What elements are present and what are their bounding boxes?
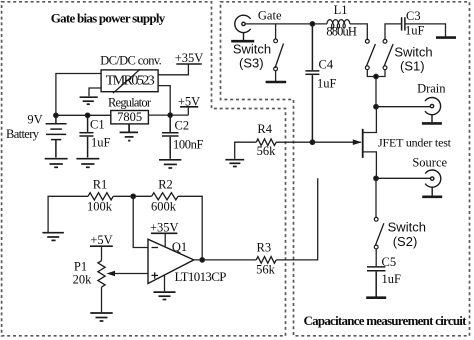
switch S3 contacts — [274, 39, 278, 43]
resistor R3 56k — [256, 257, 276, 264]
wire: R1 left lead to ground — [48, 196, 88, 232]
svg-text:56k: 56k — [256, 263, 276, 277]
svg-text:Gate bias power supply: Gate bias power supply — [51, 11, 166, 26]
svg-text:LT1013CP: LT1013CP — [175, 269, 227, 284]
svg-text:L1: L1 — [334, 3, 348, 17]
wire: op-amp output — [194, 259, 256, 261]
wire: P1 bottom to ground — [101, 287, 103, 312]
svg-text:R1: R1 — [93, 178, 108, 192]
ground: Drain BNC — [422, 122, 442, 125]
svg-text:+5V: +5V — [90, 233, 112, 247]
DC/DC converter U2 TMR0523 box — [101, 70, 158, 92]
node: battery top junction — [54, 113, 58, 117]
wire: gate line from BNC to L1 — [245, 23, 327, 25]
ground: C2 — [159, 160, 181, 168]
svg-text:P1: P1 — [74, 260, 87, 274]
svg-text:+35V: +35V — [175, 51, 204, 65]
svg-text:TMR0523: TMR0523 — [106, 73, 155, 88]
wire: R2 right to feedback corner — [178, 196, 202, 260]
node: inverting input junction — [131, 194, 135, 198]
rail +5V (regulator) — [180, 106, 198, 108]
ground: R4 — [225, 160, 244, 167]
resistor R1 100k — [88, 193, 113, 200]
regulator U3 7805 box — [111, 111, 149, 124]
wire: 7805 output +5V bus — [148, 107, 188, 115]
wire: C3 right to ground — [405, 24, 446, 37]
ground: C3 — [436, 36, 456, 39]
switch S2 contacts — [374, 217, 378, 221]
JFET channel bar — [362, 129, 364, 158]
resistor R2 600k — [152, 193, 178, 200]
wire: R4 right to gate node — [276, 141, 312, 143]
svg-text:JFET under test: JFET under test — [378, 135, 452, 149]
wire: S3 tap — [275, 24, 277, 39]
node: C2 tap junction — [168, 113, 172, 117]
wire: battery bus to 7805 input — [56, 114, 111, 116]
svg-text:9V: 9V — [27, 113, 42, 127]
capacitor C5 — [367, 267, 385, 297]
svg-text:Q1: Q1 — [172, 240, 187, 254]
wire: C3 to S1 right pole — [385, 24, 402, 40]
svg-text:1uF: 1uF — [382, 272, 402, 286]
ground: S3 — [266, 81, 287, 84]
JFET source lead — [363, 152, 377, 178]
wire: S1 common bar — [367, 70, 385, 107]
wire: L1 to S1 left pole — [350, 24, 368, 40]
ground: P1 — [90, 313, 112, 321]
capacitor C3 — [402, 17, 405, 30]
wire: TMR0523 ground pin — [89, 88, 101, 96]
wire: +5V to P1 top — [101, 246, 103, 261]
svg-text:600k: 600k — [151, 199, 177, 213]
node: C1 tap junction — [85, 113, 89, 117]
svg-text:+5V: +5V — [178, 94, 200, 108]
svg-text:20k: 20k — [73, 273, 93, 287]
node: S1 common junction — [374, 74, 378, 78]
svg-text:56k: 56k — [257, 144, 277, 158]
svg-text:C5: C5 — [382, 255, 397, 269]
wire: battery to TMR0523 input — [56, 74, 101, 116]
BNC connector: Gate — [235, 15, 251, 40]
ground: 7805 — [120, 124, 138, 141]
op-amp plus sign — [152, 272, 159, 278]
svg-text:DC/DC conv.: DC/DC conv. — [100, 53, 162, 67]
wire: S3 bottom to ground — [275, 71, 277, 81]
switch S1 right arm — [384, 44, 393, 66]
ground: TMR0523 — [80, 97, 98, 104]
svg-text:+35V: +35V — [150, 221, 179, 235]
resistor R4 56k — [256, 139, 276, 146]
ground: op-amp — [154, 292, 176, 299]
svg-text:Gate: Gate — [258, 9, 282, 23]
switch S1 left pole contacts — [365, 39, 369, 43]
wire: op-amp ground stub — [164, 276, 166, 292]
rail +35V (op-amp) — [151, 232, 177, 234]
svg-text:(S3): (S3) — [239, 56, 264, 71]
svg-text:C3: C3 — [406, 9, 421, 23]
svg-text:C2: C2 — [175, 119, 190, 133]
wire: R4 left lead to ground — [235, 142, 257, 159]
node: drain junction — [374, 105, 378, 109]
svg-text:880uH: 880uH — [326, 25, 357, 39]
svg-text:1uF: 1uF — [317, 77, 337, 91]
svg-text:100nF: 100nF — [173, 138, 204, 152]
BNC connector: Drain — [425, 98, 441, 123]
ground: battery — [45, 159, 68, 168]
svg-text:R4: R4 — [257, 122, 272, 136]
svg-text:Battery: Battery — [6, 127, 40, 141]
svg-text:Source: Source — [412, 156, 447, 170]
svg-text:C4: C4 — [319, 58, 334, 72]
node: source junction — [374, 176, 378, 180]
node: output junction — [200, 258, 204, 262]
rail +5V (P1) — [90, 245, 113, 247]
svg-text:1uF: 1uF — [91, 136, 111, 150]
wire: TMR0523 lower pin down to +5V bus — [158, 86, 170, 116]
potentiometer P1 20k — [98, 261, 105, 287]
BNC connector: Source — [425, 170, 441, 196]
wire: R1 to R2 junction — [113, 195, 151, 197]
wire: TMR0523 output to +35V — [158, 64, 188, 75]
capacitor C4 — [305, 24, 319, 142]
svg-text:Drain: Drain — [417, 82, 446, 96]
capacitor C1 — [79, 115, 93, 157]
ground: Source BNC — [422, 196, 442, 199]
svg-text:R2: R2 — [158, 178, 173, 192]
inductor L1 880uH — [327, 20, 350, 29]
strike line across TMR0523 — [113, 69, 140, 93]
wire: +35V to op-amp top — [164, 233, 166, 247]
rail +35V (power supply) — [176, 63, 202, 65]
svg-text:Regulator: Regulator — [108, 96, 152, 110]
switch S2 arm — [376, 223, 384, 245]
wire: source node down to S2 — [375, 178, 377, 217]
svg-text:7805: 7805 — [117, 110, 142, 124]
node: gate-RC junction — [310, 140, 314, 144]
svg-text:Switch: Switch — [394, 45, 432, 60]
wire: drain to BNC — [376, 106, 430, 108]
dashed box: Capacitance measurement circuit enclosure — [221, 2, 470, 336]
svg-text:1uF: 1uF — [405, 24, 425, 38]
battery BT1 9V — [46, 115, 67, 157]
svg-text:Switch: Switch — [233, 42, 271, 57]
P1 wiper arrow — [113, 273, 148, 275]
svg-text:100k: 100k — [87, 199, 113, 213]
wire: source to BNC — [376, 177, 431, 179]
capacitor C2 — [162, 115, 179, 159]
svg-text:Switch: Switch — [388, 220, 426, 235]
op-amp U1 LT1013CP triangle — [148, 239, 194, 283]
svg-text:C1: C1 — [90, 118, 105, 132]
JFET under test: gate arrow — [312, 141, 360, 143]
ground: R1 left — [42, 233, 64, 241]
wire: R3 to source node — [276, 178, 318, 260]
wire: inverting input drop — [133, 196, 148, 247]
JFET drain lead — [363, 107, 377, 133]
switch S1 right pole contacts — [383, 39, 387, 43]
svg-text:R3: R3 — [257, 241, 272, 255]
dashed box: Gate bias power supply enclosure — [2, 2, 286, 336]
ground: Gate BNC — [231, 40, 254, 43]
wire: S2 bottom to C5 — [375, 249, 377, 266]
ground: C1 — [76, 159, 99, 168]
svg-text:(S1): (S1) — [400, 59, 425, 74]
svg-text:Capacitance measurement circui: Capacitance measurement circuit — [304, 313, 468, 328]
svg-text:(S2): (S2) — [393, 234, 418, 249]
node: C4 tap on gate line — [310, 22, 314, 26]
ground: C5 — [366, 296, 386, 299]
switch S3 arm — [275, 44, 284, 69]
switch S1 left arm — [367, 44, 376, 66]
op-amp minus sign — [152, 247, 159, 249]
